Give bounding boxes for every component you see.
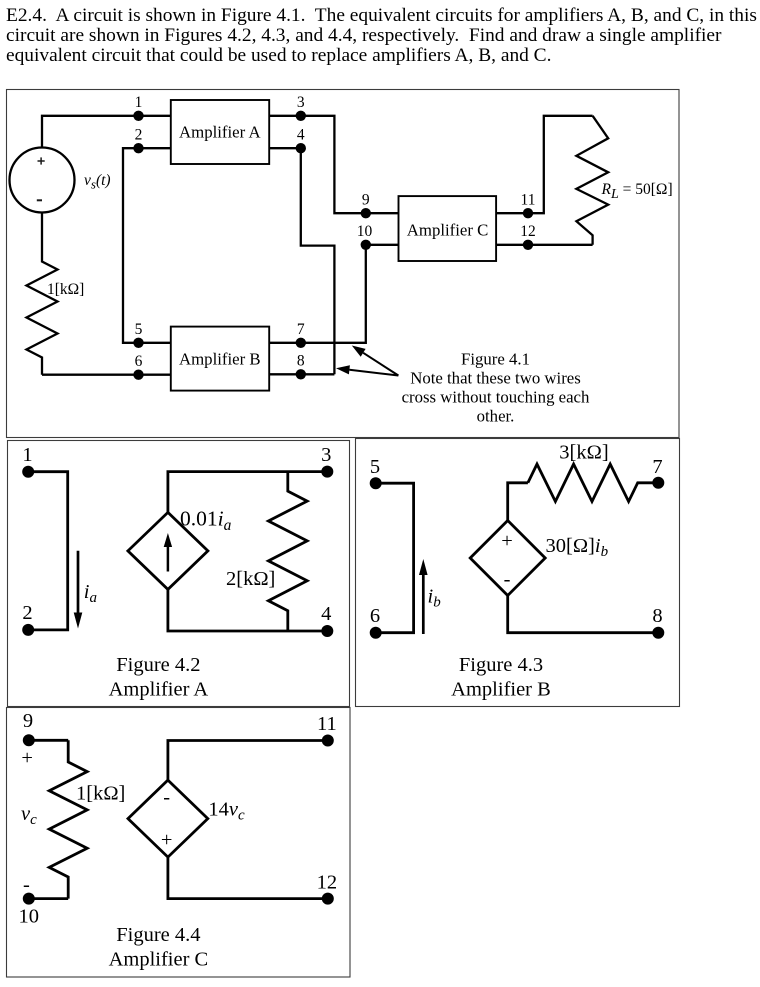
wire RL bottom via node 12 to amplifier C pin 12 — [496, 244, 592, 246]
svg-text:Figure 4.2: Figure 4.2 — [116, 654, 200, 676]
node 12 — [523, 240, 533, 250]
svg-text:other.: other. — [477, 406, 515, 425]
node 10 (fig 4.4) — [23, 893, 35, 905]
node 9 (fig 4.4) — [23, 734, 35, 746]
wire source bottom to node 12 (fig 4.4) — [168, 857, 328, 899]
svg-text:3: 3 — [321, 444, 331, 466]
resistor 1[kΩ] (fig 4.4) — [49, 740, 87, 898]
svg-text:9: 9 — [362, 192, 370, 209]
node 7 — [296, 338, 306, 348]
svg-text:1: 1 — [22, 444, 32, 466]
svg-text:circuit are shown in Figures 4: circuit are shown in Figures 4.2, 4.3, a… — [6, 25, 722, 46]
svg-text:Figure 4.4: Figure 4.4 — [116, 924, 200, 946]
svg-text:3: 3 — [297, 94, 305, 111]
svg-text:Amplifier C: Amplifier C — [109, 948, 209, 970]
wire amplifier A pin 2 to node 2 down to node 5 / amplifier B pin 5 — [123, 148, 171, 343]
svg-text:4: 4 — [321, 603, 331, 625]
resistor 3[kΩ] — [528, 464, 658, 501]
node 10 — [361, 240, 371, 250]
wire input port node 1 to node 2 (fig 4.2) — [28, 472, 67, 630]
wire amplifier B pin 7 via node 7 up to node 10 / amplifier C pin 10 — [269, 245, 398, 343]
wire node 9 to resistor 1[kΩ] (fig 4.4) — [29, 739, 68, 742]
amplifier B — [171, 327, 269, 391]
svg-text:8: 8 — [297, 353, 305, 370]
svg-text:30[Ω]ib: 30[Ω]ib — [546, 535, 609, 560]
wire source top to node 11 (fig 4.4) — [168, 741, 328, 781]
svg-text:7: 7 — [652, 456, 662, 478]
node 1 (fig 4.2) — [22, 466, 34, 478]
node 1 — [133, 111, 143, 121]
node 6 (fig 4.3) — [370, 627, 382, 639]
svg-text:6: 6 — [135, 353, 143, 370]
amplifier C — [399, 196, 497, 261]
annotation arrow to node 8 corner — [349, 370, 398, 376]
wire source bottom to node 4 (fig 4.2) — [168, 589, 327, 631]
svg-text:12: 12 — [520, 223, 536, 240]
resistor 2[kΩ] — [268, 472, 307, 631]
node 8 (fig 4.3) — [652, 627, 664, 639]
node 8 — [296, 369, 306, 379]
node 3 — [296, 111, 306, 121]
svg-text:-: - — [163, 787, 170, 809]
svg-text:Amplifier C: Amplifier C — [407, 221, 489, 240]
wire amplifier A pin 3 via node 3 to node 9 / amplifier C pin 9 — [269, 116, 398, 213]
svg-text:12: 12 — [317, 872, 338, 894]
svg-text:Note that these two wires: Note that these two wires — [410, 369, 581, 388]
wire vs+ to node 1 to amplifier A pin 1 — [42, 116, 171, 148]
svg-text:1: 1 — [135, 94, 143, 111]
svg-text:11: 11 — [317, 713, 337, 735]
svg-text:2[kΩ]: 2[kΩ] — [226, 568, 275, 590]
node 2 — [133, 143, 143, 153]
dependent current source 0.01·ia — [128, 512, 208, 589]
wire resistor bottom to node 6 / amplifier B pin 6 — [42, 374, 171, 376]
svg-text:2: 2 — [22, 602, 32, 624]
dependent voltage source 14vc — [128, 780, 208, 857]
wire source top to node 3 (fig 4.2) — [168, 472, 327, 513]
resistor RL = 50[Ω] load — [576, 116, 608, 245]
svg-text:1[kΩ]: 1[kΩ] — [76, 783, 125, 805]
annotation arrow to wire crossing — [363, 353, 398, 376]
node 9 — [361, 208, 371, 218]
node 2 (fig 4.2) — [22, 624, 34, 636]
svg-text:5: 5 — [135, 321, 143, 338]
node 3 (fig 4.2) — [321, 466, 333, 478]
wire amplifier A pin 4 via node 4 down to node 8 / amplifier B pin 8 — [269, 148, 334, 374]
current arrow ia — [77, 551, 80, 618]
wire input port node 5 to node 6 (fig 4.3) — [376, 483, 414, 633]
svg-text:10: 10 — [357, 223, 373, 240]
node 11 — [523, 208, 533, 218]
svg-text:7: 7 — [297, 321, 305, 338]
svg-text:6: 6 — [370, 605, 380, 627]
dependent voltage source 30[Ω]ib — [470, 521, 545, 596]
svg-text:Amplifier B: Amplifier B — [179, 350, 261, 369]
node 6 — [133, 370, 143, 380]
svg-text:vs(t): vs(t) — [84, 172, 111, 192]
node 7 (fig 4.3) — [652, 477, 664, 489]
svg-text:5: 5 — [370, 456, 380, 478]
node 12 (fig 4.4) — [322, 893, 334, 905]
wire resistor bottom to node 10 (fig 4.4) — [29, 897, 68, 900]
svg-text:8: 8 — [652, 605, 662, 627]
node 11 (fig 4.4) — [322, 735, 334, 747]
node 4 (fig 4.2) — [321, 625, 333, 637]
svg-text:3[kΩ]: 3[kΩ] — [559, 442, 608, 464]
amplifier A — [171, 100, 269, 164]
svg-text:E2.4. A circuit is shown in F: E2.4. A circuit is shown in Figure 4.1. … — [6, 5, 757, 26]
svg-text:1[kΩ]: 1[kΩ] — [47, 281, 84, 298]
svg-text:Figure 4.3: Figure 4.3 — [459, 654, 543, 676]
wire source bottom to node 8 (fig 4.3) — [508, 596, 659, 633]
svg-text:cross without touching each: cross without touching each — [402, 387, 590, 406]
wire amplifier C pin 11 via node 11 to load resistor RL top — [496, 116, 592, 213]
node 5 (fig 4.3) — [370, 477, 382, 489]
svg-text:+: + — [21, 747, 33, 769]
svg-text:11: 11 — [521, 192, 536, 209]
voltage source vs(t) — [10, 148, 75, 213]
svg-text:9: 9 — [23, 710, 33, 732]
svg-text:10: 10 — [19, 906, 40, 928]
current arrow ib — [422, 570, 425, 634]
svg-text:+: + — [501, 530, 513, 552]
wire source top to resistor 3[kΩ] — [508, 483, 528, 521]
svg-text:Amplifier B: Amplifier B — [451, 678, 551, 700]
svg-text:-: - — [504, 569, 511, 591]
svg-text:2: 2 — [135, 127, 143, 144]
svg-text:Amplifier A: Amplifier A — [179, 123, 261, 142]
svg-text:+: + — [161, 829, 173, 851]
svg-text:4: 4 — [297, 127, 305, 144]
node 4 — [296, 143, 306, 153]
resistor 1[kΩ] source resistance — [27, 213, 58, 375]
svg-text:Amplifier A: Amplifier A — [109, 678, 209, 700]
svg-text:Figure 4.1: Figure 4.1 — [461, 350, 530, 369]
node 5 — [133, 338, 143, 348]
svg-text:equivalent circuit that could: equivalent circuit that could be used to… — [6, 45, 551, 66]
